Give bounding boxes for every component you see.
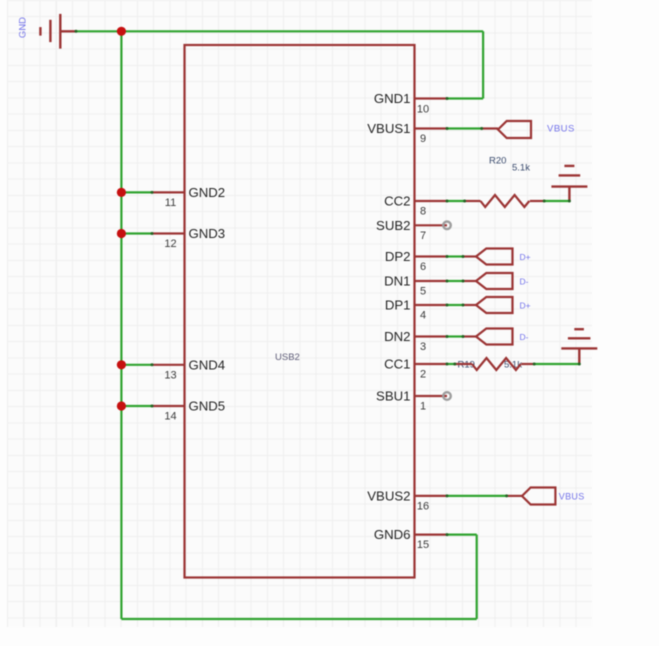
svg-text:11: 11: [165, 197, 176, 209]
pin DN1 (5): [384, 274, 447, 298]
svg-text:VBUS: VBUS: [559, 491, 585, 501]
wire: GND4 stub: [121, 364, 152, 366]
wire: GND1 to GND bus: [447, 97, 483, 99]
svg-text:1: 1: [420, 401, 426, 413]
svg-text:USB2: USB2: [275, 352, 300, 363]
svg-text:7: 7: [420, 230, 426, 242]
wire: R19 to ground: [534, 363, 579, 365]
svg-text:9: 9: [420, 133, 426, 145]
wire joints (dark endpoint dots): [75, 30, 581, 536]
junction: top-left corner node: [117, 27, 126, 36]
net flag D- (DN2): [463, 329, 513, 345]
pin CC2 (8): [384, 194, 447, 218]
svg-text:2: 2: [420, 369, 426, 381]
pin SBU1 (1): [376, 389, 447, 413]
svg-text:5.1k: 5.1k: [512, 163, 530, 174]
power flag VBUS (at VBUS2): [507, 488, 556, 505]
wire: DP1 to flag: [447, 304, 463, 306]
wire: DN2 to flag: [447, 335, 463, 337]
svg-text:DP2: DP2: [385, 249, 411, 264]
svg-text:5: 5: [420, 286, 426, 298]
wire: VBUS1 to flag: [447, 127, 482, 129]
pin VBUS1 (9): [367, 121, 447, 145]
wire: VBUS2 to flag: [447, 495, 507, 497]
wire: left GND bus vertical: [120, 31, 122, 619]
svg-text:16: 16: [417, 500, 429, 512]
svg-text:DN2: DN2: [384, 329, 410, 344]
no-connect dot SBU1: [443, 392, 451, 400]
svg-text:R20: R20: [489, 156, 506, 167]
svg-text:D+: D+: [520, 252, 531, 262]
svg-text:15: 15: [417, 539, 429, 551]
wire: DP2 to flag: [447, 255, 463, 257]
wire: GND3 stub: [121, 232, 152, 234]
svg-text:D+: D+: [520, 301, 531, 311]
net flag D+ (DP1): [463, 297, 513, 313]
resistor R20: [465, 195, 545, 207]
wire: CC1 to R19: [447, 363, 455, 365]
wire: bottom GND bus riser to GND6: [476, 535, 478, 619]
no-connect dot SUB2: [443, 222, 451, 230]
wire: CC2 to R20: [447, 200, 465, 202]
svg-text:3: 3: [420, 341, 426, 353]
pin GND1 (10): [374, 91, 447, 116]
ground symbol GND (power flag, top-left): [40, 14, 76, 49]
svg-text:14: 14: [164, 411, 176, 423]
svg-text:13: 13: [164, 369, 176, 381]
svg-text:12: 12: [164, 238, 176, 250]
pin GND5 (14): [152, 399, 225, 423]
pin GND4 (13): [152, 357, 225, 381]
connector USB2 body: [185, 45, 415, 578]
net flag D+ (DP2): [463, 249, 513, 265]
svg-text:DN1: DN1: [384, 274, 410, 289]
svg-text:VBUS1: VBUS1: [367, 121, 410, 136]
resistor R19: [455, 358, 534, 370]
wire: GND6 to bottom bus: [447, 533, 477, 535]
pin GND6 (15): [374, 527, 447, 551]
svg-text:4: 4: [420, 310, 426, 322]
svg-text:GND3: GND3: [189, 226, 226, 241]
pin GND2 (11): [152, 185, 225, 209]
svg-text:GND6: GND6: [374, 527, 411, 542]
ground symbol (CC1 pulldown): [561, 329, 597, 364]
svg-text:GND: GND: [18, 17, 29, 38]
svg-text:GND5: GND5: [189, 399, 226, 414]
svg-text:D-: D-: [520, 332, 529, 342]
junction at GND4: [117, 360, 126, 369]
svg-text:8: 8: [420, 206, 426, 218]
svg-text:D-: D-: [520, 277, 529, 287]
wire: R20 to ground: [544, 200, 569, 202]
pin VBUS2 (16): [367, 488, 447, 512]
svg-text:6: 6: [420, 261, 426, 273]
wire: GND2 stub: [121, 191, 152, 193]
svg-text:DP1: DP1: [385, 298, 411, 313]
junction at GND2: [117, 188, 126, 197]
svg-text:10: 10: [417, 104, 429, 116]
pin GND3 (12): [152, 226, 225, 250]
pin CC1 (2): [384, 357, 447, 381]
svg-text:CC1: CC1: [384, 357, 410, 372]
svg-text:GND2: GND2: [189, 185, 226, 200]
svg-text:CC2: CC2: [384, 194, 410, 209]
pin DP2 (6): [385, 249, 447, 273]
svg-text:SBU1: SBU1: [376, 389, 410, 404]
power flag VBUS (at VBUS1): [482, 121, 531, 138]
wire: top GND bus: [76, 30, 483, 32]
svg-text:SUB2: SUB2: [376, 218, 410, 233]
wire: GND bus right drop: [482, 31, 484, 98]
svg-text:VBUS: VBUS: [547, 124, 575, 135]
pin DP1 (4): [385, 298, 447, 322]
svg-text:GND4: GND4: [189, 357, 226, 372]
wire: DN1 to flag: [447, 280, 463, 282]
svg-text:VBUS2: VBUS2: [367, 488, 410, 503]
wire: bottom GND bus: [121, 618, 476, 620]
ground symbol (CC2 pulldown): [551, 166, 587, 201]
net flag D- (DN1): [463, 273, 513, 289]
wire: GND5 stub: [121, 405, 152, 407]
junction at GND5: [117, 401, 126, 410]
svg-text:GND1: GND1: [374, 91, 411, 106]
junction at GND3: [117, 229, 126, 238]
pin SUB2 (7): [376, 218, 447, 242]
pin DN2 (3): [384, 329, 447, 353]
